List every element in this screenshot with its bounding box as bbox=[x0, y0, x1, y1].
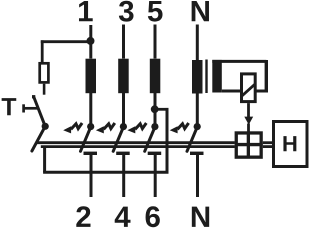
wire pole1 bottom stem bbox=[90, 155, 93, 197]
wire pole1 mid bbox=[89, 93, 92, 124]
test button label T bbox=[2, 98, 17, 115]
contact blade test extension bbox=[32, 126, 45, 151]
wire test branch horizontal bbox=[155, 108, 166, 111]
transformer secondary loop bbox=[212, 60, 268, 93]
wire test bottom vertical bbox=[43, 148, 46, 173]
trip relay K bbox=[242, 74, 256, 102]
transformer core bbox=[205, 60, 207, 94]
wire poleN top stub bbox=[196, 25, 199, 61]
wire resistor to contact stub bbox=[43, 84, 46, 95]
mechanical linkage to handle upper bbox=[263, 141, 273, 144]
wire pole3 bottom stem bbox=[122, 155, 125, 197]
wire pole5 bottom stem bbox=[154, 155, 157, 197]
wire test bottom horizontal bbox=[43, 171, 168, 174]
terminal label N bottom bbox=[192, 207, 209, 227]
wire pole3 top stub bbox=[122, 25, 125, 59]
contact poleN bbox=[170, 123, 204, 153]
mechanical linkage to handle lower bbox=[263, 145, 273, 148]
wire poleN mid bbox=[196, 93, 199, 124]
wire pole5 top stub bbox=[154, 25, 157, 59]
wire test left vertical bbox=[41, 40, 44, 62]
contact pole5 bbox=[127, 123, 161, 153]
handle box H bbox=[274, 122, 308, 167]
mechanical linkage upper line bbox=[36, 141, 235, 144]
transformer primary winding pole1 bbox=[86, 59, 97, 93]
transformer primary winding poleN bbox=[192, 60, 203, 94]
terminal label 1 bbox=[79, 1, 93, 21]
node test tap on pole5 bbox=[151, 105, 159, 113]
actuation arrow relay to mechanism bbox=[244, 103, 253, 132]
transformer primary winding pole5 bbox=[150, 59, 161, 93]
wire pole1 top stub bbox=[89, 25, 92, 59]
contact blade test button bbox=[32, 95, 45, 126]
mechanical linkage lower line bbox=[41, 145, 235, 148]
terminal label 4 bbox=[115, 207, 131, 227]
terminal label 2 bbox=[76, 206, 90, 227]
contact pole1 bbox=[63, 123, 97, 153]
terminal label N top bbox=[192, 1, 209, 21]
terminal label 6 bbox=[146, 206, 160, 227]
wire test branch vertical bbox=[166, 108, 169, 172]
node test pivot bbox=[42, 123, 49, 130]
resistor R test bbox=[40, 63, 49, 82]
terminal label 3 bbox=[119, 1, 134, 22]
test button actuator bbox=[24, 104, 38, 112]
wire test top horizontal bbox=[41, 40, 91, 43]
transformer secondary winding bbox=[212, 60, 222, 93]
node test tap on pole1 bbox=[87, 37, 95, 45]
transformer primary winding pole3 bbox=[118, 59, 129, 93]
wire pole5 mid bbox=[154, 93, 157, 124]
terminal label 5 bbox=[148, 1, 163, 22]
wire pole3 mid bbox=[122, 93, 125, 124]
contact pole3 bbox=[96, 123, 130, 153]
trip mechanism box bbox=[236, 133, 262, 157]
wire poleN bottom stem bbox=[196, 155, 199, 197]
